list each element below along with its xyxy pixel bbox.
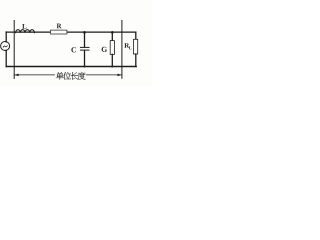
conductance G bbox=[110, 32, 114, 67]
wire source top lead bbox=[5, 32, 7, 42]
wire top rail bbox=[6, 31, 136, 33]
node junction G bottom bbox=[111, 65, 113, 67]
dimension line right arrow bbox=[86, 74, 122, 77]
node junction C top bbox=[83, 31, 86, 34]
AC source G1 bbox=[1, 42, 10, 51]
capacitor C bbox=[81, 32, 90, 67]
label unit length 单位长度 bbox=[56, 72, 86, 80]
inductor L bbox=[16, 30, 35, 33]
resistor RL load bbox=[134, 32, 138, 66]
label G bbox=[102, 47, 107, 52]
label RL bbox=[124, 43, 131, 49]
label C bbox=[71, 47, 76, 52]
label R bbox=[57, 24, 62, 29]
label L bbox=[22, 24, 26, 29]
node junction G top bbox=[111, 31, 114, 34]
wire bottom rail bbox=[6, 66, 136, 68]
node junction C bottom bbox=[83, 65, 85, 67]
wire right section boundary bbox=[121, 21, 123, 79]
wire source bottom lead bbox=[5, 50, 7, 66]
wire left section boundary bbox=[13, 21, 15, 79]
dimension line left arrow bbox=[14, 74, 54, 77]
resistor R bbox=[51, 30, 67, 34]
